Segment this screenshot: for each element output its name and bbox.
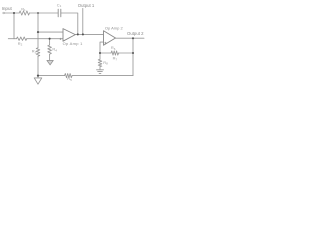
wire op-amp U2 noninverting input: [100, 42, 104, 53]
svg-text:Op Amp 2: Op Amp 2: [105, 26, 124, 31]
wire noninverting node down to R4: [49, 39, 51, 45]
resistor R8: [98, 59, 102, 66]
junction node A top: [37, 12, 39, 14]
plus mark U1 noninverting input: [59, 38, 61, 40]
junction U1 noninverting input: [49, 38, 51, 40]
op-amp U1: [63, 29, 75, 42]
junction R6 to Output 2 column: [132, 52, 134, 54]
wire input terminal to R1: [5, 12, 20, 14]
svg-text:R5: R5: [67, 76, 72, 82]
wire R1 to C1: [29, 12, 58, 14]
svg-text:R3: R3: [32, 49, 37, 55]
ground (triangle, R4): [47, 60, 53, 65]
svg-text:Output 1: Output 1: [78, 3, 95, 8]
svg-text:Output 2: Output 2: [127, 31, 144, 36]
junction input node: [13, 12, 15, 14]
junction Output 2: [132, 37, 134, 39]
wire R8 to ground: [99, 67, 101, 70]
op-amp U2: [104, 31, 116, 46]
svg-text:R4: R4: [52, 47, 57, 53]
resistor R2: [17, 37, 27, 40]
junction U1 inverting input: [37, 31, 39, 33]
wire Output 2 column down: [132, 38, 134, 75]
wire op-amp U1 output: [75, 33, 103, 35]
wire bottom rail left: [38, 75, 65, 77]
resistor R1: [19, 11, 29, 15]
wire R4 to ground: [49, 54, 51, 60]
wire stub left of R2: [8, 38, 16, 40]
junction Output 1: [82, 33, 84, 35]
svg-text:R2: R2: [18, 41, 23, 47]
resistor R3: [36, 48, 40, 56]
junction U1 output / C1 feedback: [77, 33, 79, 35]
wire bottom rail right: [72, 75, 133, 77]
wire R3 to bottom rail: [37, 56, 39, 75]
svg-text:C1: C1: [57, 2, 62, 8]
svg-text:R6: R6: [111, 45, 116, 51]
junction bottom rail: [37, 75, 39, 77]
input terminal: [3, 12, 5, 14]
resistor R5: [65, 74, 73, 78]
svg-text:Input: Input: [2, 6, 13, 11]
resistor R6: [111, 51, 119, 55]
wire C1 to op-amp U1 output node: [61, 13, 78, 34]
wire U2 input node to R6: [100, 52, 111, 54]
ground (triangle, bottom rail): [34, 78, 42, 84]
wire input node down to R2 row: [13, 13, 15, 39]
svg-text:Op Amp 1: Op Amp 1: [63, 41, 84, 46]
wire node A vertical (R1 output): [37, 13, 39, 48]
svg-text:R1: R1: [21, 6, 26, 12]
svg-text:R7: R7: [113, 56, 118, 62]
wire op-amp U2 output: [116, 37, 145, 39]
capacitor C1: [58, 9, 61, 16]
junction U2 input node: [99, 52, 101, 54]
resistor R4: [48, 45, 52, 54]
ground (bars, R8): [97, 70, 104, 74]
plus mark U2 noninverting input: [104, 42, 106, 44]
svg-text:R8: R8: [103, 60, 108, 66]
wire R2 to U1 noninverting input: [27, 38, 63, 40]
wire U1 inverting input: [38, 31, 63, 33]
wire R6 to Output 2 column: [119, 52, 133, 54]
wire Output 1 stub: [82, 8, 84, 34]
wire rail node to ground: [37, 76, 39, 78]
wire U2 input node down to R8: [99, 53, 101, 59]
